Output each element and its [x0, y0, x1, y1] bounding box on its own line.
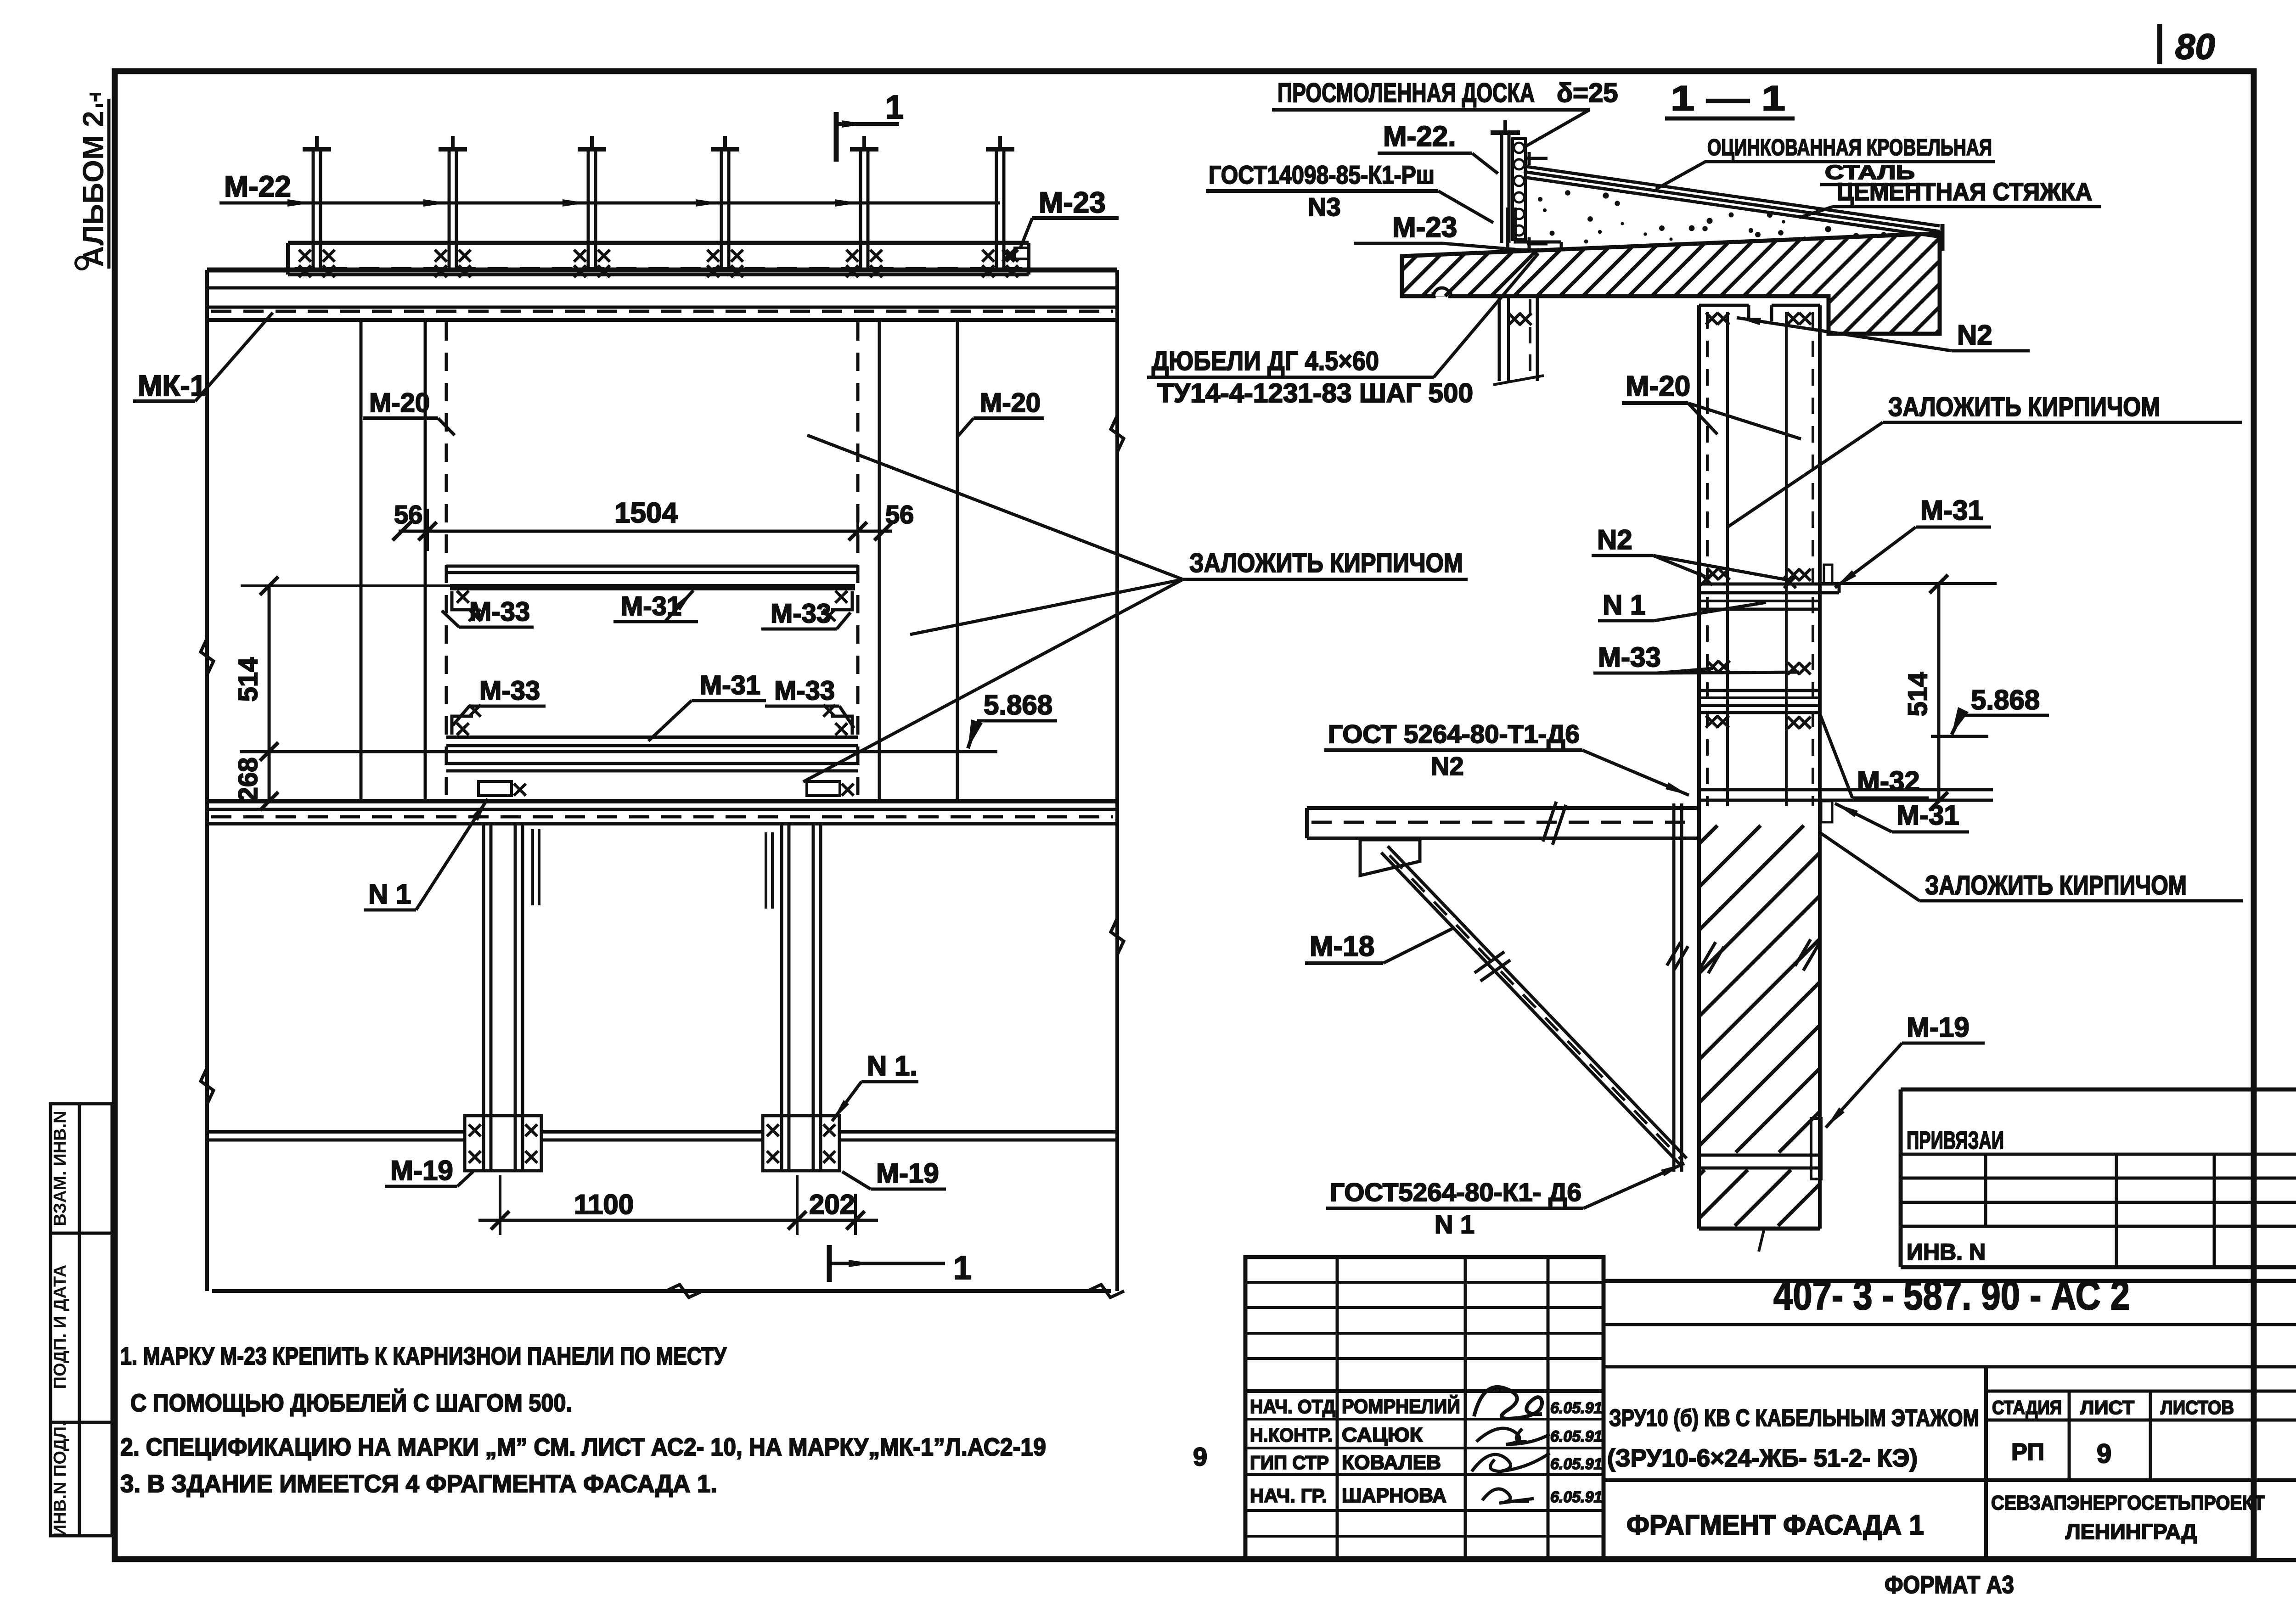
- svg-text:N 1: N 1: [1603, 589, 1645, 620]
- svg-text:М-20: М-20: [369, 388, 430, 418]
- svg-text:407- 3 - 587. 90 - АС 2: 407- 3 - 587. 90 - АС 2: [1773, 1273, 2130, 1319]
- svg-text:9: 9: [1193, 1442, 1207, 1471]
- svg-text:НАЧ. ГР.: НАЧ. ГР.: [1250, 1485, 1327, 1506]
- svg-text:М-19: М-19: [390, 1155, 453, 1186]
- svg-text:М-19: М-19: [876, 1158, 939, 1189]
- svg-text:ВЗАМ. ИНВ.N: ВЗАМ. ИНВ.N: [51, 1111, 70, 1226]
- svg-text:1504: 1504: [614, 497, 678, 529]
- svg-text:202: 202: [809, 1189, 855, 1220]
- svg-text:5.868: 5.868: [984, 690, 1052, 720]
- svg-text:СТАДИЯ: СТАДИЯ: [1992, 1397, 2062, 1418]
- svg-text:М-22: М-22: [224, 170, 291, 203]
- svg-text:М-20: М-20: [1626, 371, 1690, 402]
- svg-text:М-23: М-23: [1392, 212, 1457, 243]
- svg-text:ЗАЛОЖИТЬ КИРПИЧОМ: ЗАЛОЖИТЬ КИРПИЧОМ: [1888, 392, 2160, 422]
- svg-text:ГИП СТР: ГИП СТР: [1250, 1452, 1329, 1473]
- svg-text:N 1: N 1: [1435, 1210, 1474, 1239]
- svg-text:1 — 1: 1 — 1: [1671, 79, 1785, 118]
- svg-text:РОМРНЕЛИЙ: РОМРНЕЛИЙ: [1342, 1394, 1460, 1418]
- svg-text:2. СПЕЦИФИКАЦИЮ НА МАРКИ „: 2. СПЕЦИФИКАЦИЮ НА МАРКИ „М” СМ. ЛИСТ АС…: [120, 1433, 1046, 1461]
- svg-text:514: 514: [1903, 672, 1933, 717]
- svg-text:N3: N3: [1308, 192, 1341, 221]
- svg-text:М-33: М-33: [1598, 642, 1661, 673]
- svg-text:ГОСТ5264-80-К1- Д6: ГОСТ5264-80-К1- Д6: [1330, 1178, 1581, 1207]
- svg-text:ЛЕНИНГРАД: ЛЕНИНГРАД: [2065, 1520, 2197, 1544]
- svg-text:М-18: М-18: [1310, 931, 1374, 962]
- svg-text:80: 80: [2175, 26, 2215, 67]
- svg-text:ЛИСТОВ: ЛИСТОВ: [2161, 1397, 2234, 1418]
- svg-text:6.05.91: 6.05.91: [1550, 1488, 1602, 1506]
- svg-text:ЗРУ10 (б) КВ С КАБЕЛЬНЫМ ЭТАЖО: ЗРУ10 (б) КВ С КАБЕЛЬНЫМ ЭТАЖОМ: [1609, 1405, 1979, 1432]
- svg-text:56: 56: [394, 500, 422, 529]
- svg-text:ИНВ. N: ИНВ. N: [1907, 1239, 1986, 1265]
- svg-text:ЦЕМЕНТНАЯ СТЯЖКА: ЦЕМЕНТНАЯ СТЯЖКА: [1837, 178, 2092, 206]
- svg-text:ПОДП. И ДАТА: ПОДП. И ДАТА: [51, 1265, 70, 1389]
- svg-text:ФРАГМЕНТ ФАСАДА 1: ФРАГМЕНТ ФАСАДА 1: [1626, 1510, 1924, 1540]
- svg-text:1: 1: [953, 1250, 972, 1286]
- svg-text:ТУ14-4-1231-83 ШАГ 500: ТУ14-4-1231-83 ШАГ 500: [1157, 378, 1473, 408]
- svg-text:НАЧ. ОТД: НАЧ. ОТД: [1250, 1396, 1335, 1417]
- svg-text:514: 514: [233, 657, 263, 702]
- svg-text:САЦЮК: САЦЮК: [1342, 1424, 1423, 1446]
- svg-text:1: 1: [885, 89, 904, 126]
- svg-text:М-19: М-19: [1907, 1012, 1970, 1043]
- svg-text:ПРОСМОЛЕННАЯ ДОСКА: ПРОСМОЛЕННАЯ ДОСКА: [1277, 78, 1535, 108]
- svg-text:1100: 1100: [574, 1189, 634, 1220]
- svg-text:δ=25: δ=25: [1557, 78, 1618, 108]
- svg-text:ГОСТ14098-85-К1-Рш: ГОСТ14098-85-К1-Рш: [1209, 160, 1435, 189]
- svg-text:9: 9: [2097, 1439, 2111, 1469]
- svg-text:М-31: М-31: [621, 591, 681, 621]
- svg-text:МК-1: МК-1: [138, 369, 206, 402]
- svg-text:М-20: М-20: [980, 388, 1041, 418]
- svg-text:М-22.: М-22.: [1383, 121, 1456, 152]
- svg-text:АЛЬБОМ 2 -: АЛЬБОМ 2 -: [77, 93, 110, 267]
- svg-text:ФОРМАТ А3: ФОРМАТ А3: [1885, 1571, 2014, 1599]
- svg-text:С ПОМОЩЬЮ ДЮБЕЛЕЙ С ШАГОМ: С ПОМОЩЬЮ ДЮБЕЛЕЙ С ШАГОМ 500.: [130, 1389, 572, 1417]
- svg-text:ЗАЛОЖИТЬ КИРПИЧОМ: ЗАЛОЖИТЬ КИРПИЧОМ: [1925, 870, 2187, 900]
- svg-text:ОЦИНКОВАННАЯ КРОВЕЛЬНАЯ: ОЦИНКОВАННАЯ КРОВЕЛЬНАЯ: [1707, 135, 1992, 160]
- svg-text:1. МАРКУ М-23 КРЕПИТЬ К КА: 1. МАРКУ М-23 КРЕПИТЬ К КАРНИЗНОИ ПАНЕЛИ…: [120, 1342, 727, 1370]
- svg-text:ДЮБЕЛИ ДГ 4.5×60: ДЮБЕЛИ ДГ 4.5×60: [1152, 346, 1379, 376]
- svg-text:М-31: М-31: [1920, 495, 1983, 526]
- svg-text:N 1: N 1: [368, 879, 411, 909]
- svg-text:М-23: М-23: [1039, 186, 1106, 219]
- svg-text:N2: N2: [1431, 752, 1464, 780]
- svg-text:(ЗРУ10-6×24-ЖБ- 51-2- КЭ): (ЗРУ10-6×24-ЖБ- 51-2- КЭ): [1607, 1444, 1918, 1472]
- svg-text:6.05.91: 6.05.91: [1550, 1455, 1602, 1473]
- svg-text:СЕВЗАПЭНЕРГОСЕТЬПРОЕКТ: СЕВЗАПЭНЕРГОСЕТЬПРОЕКТ: [1991, 1492, 2265, 1514]
- svg-text:N 1.: N 1.: [867, 1050, 917, 1081]
- svg-text:М-32: М-32: [1857, 766, 1920, 797]
- svg-text:М-33: М-33: [479, 676, 540, 706]
- svg-text:Н.КОНТР.: Н.КОНТР.: [1250, 1424, 1333, 1446]
- svg-text:ШАРНОВА: ШАРНОВА: [1342, 1484, 1446, 1507]
- svg-text:3. В ЗДАНИЕ ИМЕЕТСЯ 4 ФР: 3. В ЗДАНИЕ ИМЕЕТСЯ 4 ФРАГМЕНТА ФАСАДА 1…: [120, 1470, 717, 1498]
- svg-text:М-33: М-33: [469, 597, 530, 627]
- svg-text:М-33: М-33: [774, 676, 835, 706]
- svg-text:ЗАЛОЖИТЬ КИРПИЧОМ: ЗАЛОЖИТЬ КИРПИЧОМ: [1189, 548, 1463, 578]
- svg-text:6.05.91: 6.05.91: [1550, 1428, 1602, 1445]
- svg-text:КОВАЛЕВ: КОВАЛЕВ: [1342, 1451, 1441, 1474]
- svg-text:N2: N2: [1957, 320, 1992, 350]
- svg-text:ПРИВЯЗАИ: ПРИВЯЗАИ: [1907, 1127, 2004, 1154]
- svg-text:56: 56: [885, 500, 914, 529]
- svg-text:5.868: 5.868: [1971, 685, 2040, 715]
- svg-text:ЛИСТ: ЛИСТ: [2080, 1397, 2134, 1418]
- svg-text:М-31: М-31: [700, 670, 760, 700]
- svg-text:ИНВ.N ПОДЛ.: ИНВ.N ПОДЛ.: [51, 1421, 70, 1537]
- svg-text:268: 268: [233, 758, 263, 802]
- svg-text:ГОСТ 5264-80-Т1-Д6: ГОСТ 5264-80-Т1-Д6: [1328, 719, 1580, 748]
- svg-text:М-31: М-31: [1896, 800, 1959, 831]
- svg-text:М-33: М-33: [771, 599, 831, 629]
- svg-text:РП: РП: [2011, 1439, 2044, 1465]
- svg-text:6.05.91: 6.05.91: [1550, 1399, 1602, 1417]
- svg-text:N2: N2: [1597, 524, 1632, 555]
